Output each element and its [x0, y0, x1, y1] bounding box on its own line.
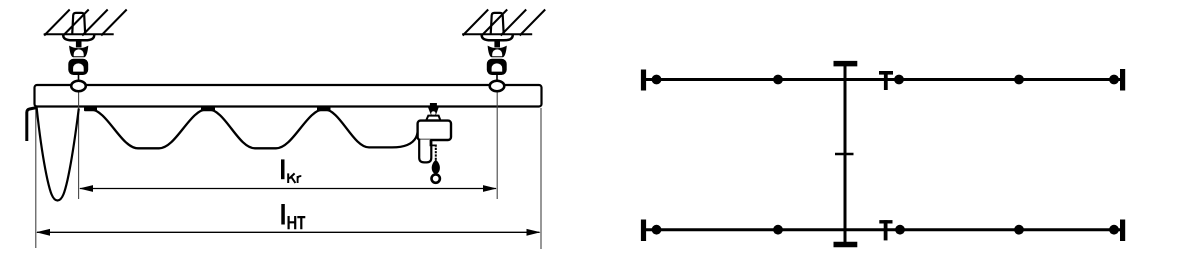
- cable trolley tab B: [201, 107, 215, 111]
- rail top left end cap: [641, 70, 646, 91]
- arrow lHT left: [36, 229, 50, 236]
- arrow lHT right: [527, 229, 541, 236]
- rail top suspension dot 2: [773, 75, 783, 85]
- cable trolley tab A: [84, 107, 97, 111]
- hoist collar bracket: [426, 116, 440, 121]
- chain bag: [419, 140, 431, 163]
- extension line hanger 1: [78, 92, 80, 200]
- crane bridge vertical: [844, 62, 847, 246]
- plan rail bottom: [644, 228, 1122, 231]
- hoist chain: [435, 145, 437, 162]
- festoon loop 1: [90, 109, 207, 148]
- cable trolley tab C: [317, 107, 331, 111]
- bridge bottom cap: [834, 242, 858, 248]
- extension line right (beam right edge): [540, 108, 542, 249]
- rail top suspension dot 3: [894, 75, 904, 85]
- rail top suspension dot 4: [1014, 75, 1024, 85]
- ceiling suspension left: [44, 10, 127, 92]
- rail top suspension dot 5: [1109, 75, 1119, 85]
- chain guide step: [431, 140, 436, 145]
- festoon loop 2: [208, 109, 324, 148]
- hoist body: [418, 121, 451, 140]
- rail bottom suspension dot 3: [895, 225, 905, 235]
- extension line hanger 2: [496, 92, 498, 200]
- dimension line lHT: [37, 231, 540, 233]
- label lHT letter l: [281, 204, 285, 225]
- bridge top cap: [834, 61, 858, 67]
- hook weight: [432, 160, 440, 174]
- label lKr letter K: [288, 173, 295, 183]
- rail bottom suspension dot 4: [1014, 225, 1024, 235]
- festoon loop 3: [324, 109, 418, 147]
- label lKr letter r: [298, 176, 302, 183]
- hoist trolley triangle: [428, 107, 439, 115]
- rail top right end cap: [1120, 69, 1125, 91]
- hook ring: [432, 174, 440, 182]
- rail bottom suspension dot 1: [652, 225, 662, 235]
- trolley marker T bottom stem: [884, 220, 888, 240]
- rail bottom left end cap: [641, 220, 646, 242]
- ceiling suspension right: [462, 10, 545, 92]
- monorail beam: [35, 85, 542, 107]
- trolley marker T bottom bar: [879, 220, 892, 223]
- rail bottom right end cap: [1120, 220, 1125, 242]
- label lHT letter T: [297, 217, 305, 229]
- festoon deep loop: [37, 107, 79, 201]
- label lKr letter l: [281, 159, 285, 179]
- trolley wheel white circle: [431, 111, 435, 115]
- arrow lKr left: [79, 185, 93, 192]
- label lHT letter H: [289, 216, 296, 229]
- hoist trolley clamp in beam: [430, 103, 437, 107]
- trolley marker T top bar: [879, 71, 893, 75]
- rail bottom suspension dot 5: [1109, 225, 1119, 235]
- bridge middle tick: [835, 153, 854, 156]
- trolley marker T top stem: [884, 71, 888, 90]
- rail bottom suspension dot 2: [773, 225, 783, 235]
- extension line left (beam left edge): [35, 108, 37, 248]
- dimension line lKr: [80, 188, 496, 190]
- rail top suspension dot 1: [652, 75, 662, 85]
- plan rail top: [644, 78, 1122, 81]
- festoon cable end clamp: [27, 108, 37, 142]
- arrow lKr right: [483, 185, 497, 192]
